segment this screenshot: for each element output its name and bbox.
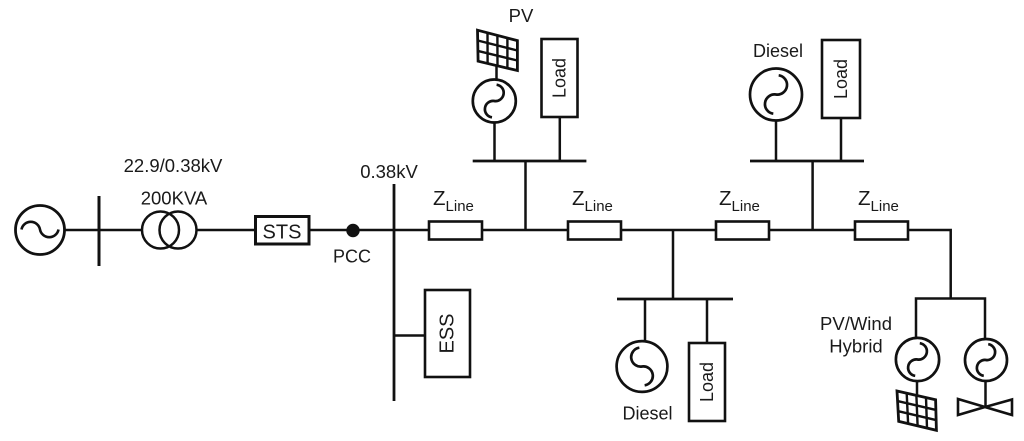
svg-text:Load: Load (550, 58, 570, 98)
PV panel (478, 30, 518, 70)
ESS box (425, 290, 470, 377)
wire transformer to STS (197, 229, 256, 232)
wire grid to transformer (65, 229, 143, 232)
bottom load box (689, 343, 725, 421)
svg-text:22.9/0.38kV: 22.9/0.38kV (124, 155, 223, 176)
svg-text:PCC: PCC (333, 247, 371, 267)
PV cluster bus bar (473, 160, 587, 163)
wire diesel bus to main line (811, 161, 814, 230)
transformer T1 (142, 212, 197, 249)
wire bus to ESS (394, 334, 425, 337)
svg-text:ZLine: ZLine (858, 187, 899, 215)
wire bus to bottom load (706, 299, 709, 343)
wire Zline1 to Zline2 (482, 229, 568, 232)
wire main line to bottom diesel cluster (672, 230, 675, 299)
Diesel top cluster bus bar (750, 160, 864, 163)
resistor Z_Line 1 (429, 222, 482, 240)
hybrid cluster bracket (916, 299, 985, 339)
svg-text:PV: PV (509, 5, 534, 26)
grid source G (16, 206, 65, 255)
0.38kV bus (393, 184, 396, 401)
wire hybrid circle to panel (916, 381, 919, 397)
wire Zline3 to Zline4 (769, 229, 855, 232)
svg-text:ESS: ESS (437, 313, 459, 353)
svg-text:ZLine: ZLine (719, 187, 760, 215)
wire STS to bus (309, 229, 394, 232)
wire wind gen to turbine (984, 381, 987, 407)
svg-text:Diesel: Diesel (622, 404, 672, 424)
wire diesel load to bus (840, 118, 843, 161)
bottom cluster bus bar (617, 298, 733, 301)
node PCC (346, 224, 359, 237)
hybrid wind gen circle (965, 339, 1007, 381)
wire PV bus to main line (524, 161, 527, 230)
svg-text:Hybrid: Hybrid (829, 336, 882, 357)
bus tick (98, 196, 101, 266)
bottom diesel generator circle (617, 341, 668, 392)
resistor Z_Line 4 (855, 222, 908, 240)
svg-text:ZLine: ZLine (572, 187, 613, 215)
wind turbine rotor (958, 399, 1012, 415)
PV inverter circle (473, 80, 516, 123)
wire Zline4 to right corner (908, 230, 951, 299)
hybrid PV inverter circle (896, 338, 939, 381)
resistor Z_Line 3 (716, 222, 769, 240)
diesel top load box (822, 40, 860, 118)
svg-text:0.38kV: 0.38kV (360, 161, 418, 182)
hybrid PV panel (897, 391, 936, 430)
svg-text:PV/Wind: PV/Wind (820, 313, 892, 334)
STS box (256, 217, 310, 245)
svg-text:Load: Load (831, 59, 851, 99)
wire panel to PV inverter (495, 66, 498, 80)
wire Zline2 to Zline3 (621, 229, 716, 232)
svg-text:ZLine: ZLine (433, 187, 474, 215)
wire bus to Zline1 (394, 229, 429, 232)
svg-text:Load: Load (697, 362, 717, 402)
wire PV inverter to bus (493, 123, 496, 162)
svg-text:STS: STS (263, 222, 302, 244)
svg-text:200KVA: 200KVA (141, 188, 208, 209)
PV load box (542, 39, 578, 117)
diesel generator circle top (750, 69, 802, 121)
resistor Z_Line 2 (568, 222, 621, 240)
wire bus to bottom diesel gen (644, 299, 647, 341)
svg-text:Diesel: Diesel (753, 41, 803, 61)
wire diesel gen to bus (775, 121, 778, 162)
wire PV load to bus (559, 117, 562, 161)
